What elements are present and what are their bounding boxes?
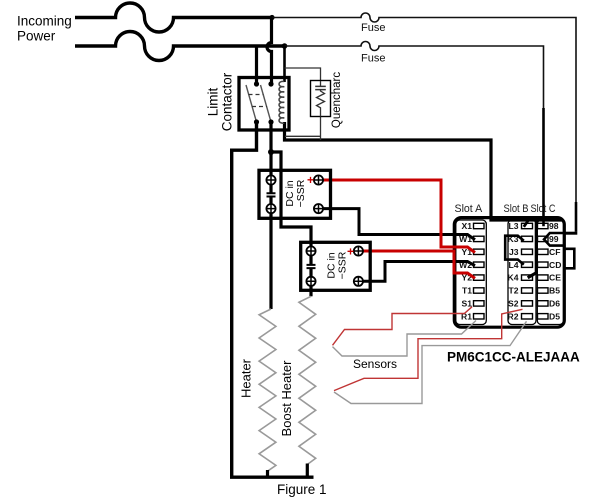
terminal S2 pin — [522, 301, 533, 306]
wire boost heater bottom stub — [306, 464, 309, 478]
terminal S1 pin — [474, 301, 485, 306]
node junction on L2 — [282, 43, 288, 49]
svg-text:T1: T1 — [462, 286, 472, 296]
svg-text:Slot C: Slot C — [531, 203, 556, 215]
fuse F1 wire lower segment — [575, 202, 578, 232]
terminal K3 pin — [522, 236, 533, 241]
quencharc RC snubber box — [311, 81, 331, 117]
sensor 1 gray lead to R1 — [333, 321, 477, 357]
wire F1 to terminal block — [564, 232, 578, 235]
svg-text:Slot B: Slot B — [504, 203, 529, 215]
terminal T1 pin — [474, 288, 485, 293]
terminal D6 pin — [538, 301, 549, 306]
wire SSR2 output to W2 — [361, 262, 475, 282]
quencharc capacitor — [320, 81, 322, 86]
sensor 2 red lead from S2 — [334, 309, 523, 390]
svg-text:Slot A: Slot A — [455, 203, 484, 215]
wire L1 drop to contactor with hop over L2 — [267, 18, 272, 85]
svg-text:S2: S2 — [508, 299, 519, 309]
terminal B5 pin — [538, 288, 549, 293]
svg-text:Boost Heater: Boost Heater — [279, 360, 294, 437]
wire 99 pointer from right edge — [544, 233, 565, 246]
red wire SSR1 + input to Y1 — [321, 180, 475, 253]
terminal R2 pin — [522, 314, 533, 319]
resistor heater element — [259, 309, 276, 471]
svg-text:Figure 1: Figure 1 — [277, 482, 327, 497]
svg-text:Incoming: Incoming — [17, 14, 72, 29]
quencharc resistor zigzag — [317, 90, 325, 117]
terminal L3 pin — [522, 223, 533, 228]
svg-text:T2: T2 — [508, 286, 518, 296]
wire branch to SSR2 input — [271, 152, 311, 265]
SSR U1 terminals — [266, 175, 323, 213]
svg-text:Heater: Heater — [239, 358, 254, 398]
svg-text:98: 98 — [549, 221, 559, 231]
AC line L1 — [75, 3, 272, 32]
wire L2 drop to contactor — [255, 46, 258, 84]
fuse F2 wire lower segment to terminal 98 — [542, 108, 545, 226]
resistor boost heater element — [299, 296, 316, 464]
SSR U1 input capacitor bars — [267, 193, 276, 196]
node junction pole2/SSR2 branch — [268, 149, 274, 155]
SSR U1 box — [259, 170, 331, 218]
contactor terminal dots — [254, 81, 259, 86]
svg-text:LimitContactor: LimitContactor — [206, 72, 235, 131]
terminal CE pin — [538, 275, 549, 280]
SSR U2 terminals — [306, 246, 363, 286]
fuse F1 wire — [272, 13, 576, 204]
AC line L2 — [75, 32, 285, 61]
wire L2 junction drop to contactor coil — [283, 46, 286, 82]
wire contactor pole2 down through SSR1 inputs to heater — [269, 122, 272, 193]
terminal L4 pin — [522, 262, 533, 267]
terminal Y1 pin — [474, 249, 485, 254]
contactor mechanical link dashed — [249, 94, 264, 96]
wire branch into L3 — [524, 219, 528, 227]
wire jumper K3-L4 bracket — [505, 236, 524, 265]
svg-text:−SSR: −SSR — [295, 179, 307, 207]
wire SSR1 output to W1 — [321, 209, 475, 240]
svg-text:D5: D5 — [549, 311, 560, 321]
red wire SSR2 + input to Y2 — [361, 251, 475, 278]
svg-text:X1: X1 — [461, 221, 472, 231]
terminal T2 pin — [522, 288, 533, 293]
SSR U2 input capacitor bars — [307, 265, 316, 268]
slot A column box — [456, 220, 487, 325]
fuse F2 wire — [285, 42, 544, 111]
contactor contact 1 blade — [246, 85, 257, 122]
terminal block controller outline — [454, 218, 564, 328]
terminal 98 pin — [538, 223, 549, 228]
wire heater bottom stub — [266, 470, 269, 477]
svg-text:+: + — [307, 173, 314, 187]
svg-text:Quencharc: Quencharc — [331, 72, 343, 129]
svg-text:B5: B5 — [549, 286, 560, 296]
sensor 2 gray lead to R2 — [334, 321, 527, 403]
svg-text:Power: Power — [17, 29, 56, 44]
terminal CF pin — [538, 249, 549, 254]
svg-text:S1: S1 — [461, 299, 472, 309]
svg-text:J3: J3 — [509, 247, 519, 257]
terminal CD pin — [538, 262, 549, 267]
sensor 1 red lead from S1 — [333, 307, 473, 346]
wire contactor pole1 to bottom return and heater bottom bus — [232, 122, 314, 477]
svg-text:CD: CD — [549, 260, 561, 270]
svg-text:Fuse: Fuse — [361, 22, 385, 34]
terminal Y2 pin — [474, 275, 485, 280]
quencharc wire top — [285, 68, 321, 81]
svg-text:L4: L4 — [508, 260, 518, 270]
wire contactor coil to terminal L3 and K4 — [285, 122, 564, 278]
terminal 99 pin — [538, 236, 549, 241]
terminal W2 pin — [474, 262, 485, 267]
node junction on L1 — [269, 15, 274, 20]
terminal J3 pin — [522, 249, 533, 254]
svg-text:L3: L3 — [508, 221, 518, 231]
slot B column box — [508, 220, 536, 325]
terminal D5 pin — [538, 314, 549, 319]
svg-text:K4: K4 — [508, 273, 519, 283]
contactor contact 2 blade — [261, 85, 272, 122]
svg-text:+: + — [347, 245, 354, 259]
svg-text:Fuse: Fuse — [361, 53, 385, 65]
svg-text:Sensors: Sensors — [353, 357, 397, 371]
SSR U2 box — [301, 242, 371, 290]
terminal X1 pin — [474, 223, 485, 228]
terminal K4 pin — [522, 275, 533, 280]
contactor coil — [279, 81, 284, 123]
quencharc wire bottom — [285, 116, 321, 140]
terminal R1 pin — [474, 314, 485, 319]
wire jumper CF-CD — [564, 249, 575, 268]
svg-text:CF: CF — [549, 247, 560, 257]
svg-text:CE: CE — [549, 273, 561, 283]
svg-text:D6: D6 — [549, 299, 560, 309]
slot C column box — [537, 220, 563, 325]
contactor K1 box — [239, 78, 289, 131]
svg-text:99: 99 — [549, 234, 559, 244]
svg-text:PM6C1CC-ALEJAAA: PM6C1CC-ALEJAAA — [447, 350, 580, 365]
terminal W1 pin — [474, 236, 485, 241]
